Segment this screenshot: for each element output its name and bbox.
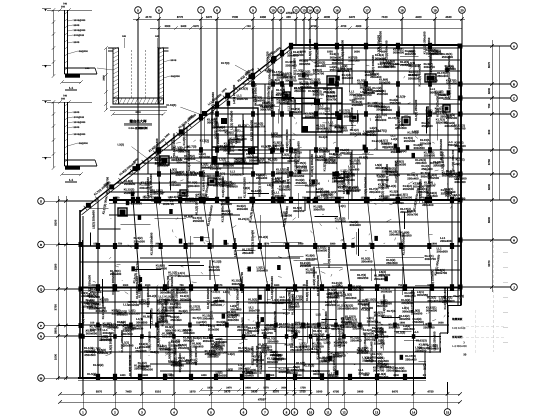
svg-text:200x500: 200x500 — [279, 370, 291, 374]
svg-text:250x600: 250x600 — [193, 219, 205, 223]
svg-text:250x400: 250x400 — [221, 202, 233, 206]
columns (filled) — [79, 43, 463, 381]
svg-text:300x700: 300x700 — [352, 288, 364, 292]
svg-text:750: 750 — [118, 243, 123, 246]
svg-text:250x500: 250x500 — [142, 367, 154, 371]
building diagonal edge beam (double line) — [80, 45, 291, 212]
svg-text:16: 16 — [335, 8, 339, 12]
svg-text:750: 750 — [196, 322, 201, 325]
svg-text:300x600: 300x600 — [350, 162, 362, 166]
svg-text:250x600: 250x600 — [316, 249, 328, 253]
svg-text:300x600: 300x600 — [325, 112, 337, 116]
left vertical dimension lines — [57, 196, 59, 380]
svg-text:19: 19 — [433, 8, 437, 12]
svg-text:200x500: 200x500 — [97, 351, 109, 355]
svg-text:KL3(1) 200x500: KL3(1) 200x500 — [397, 106, 401, 127]
svg-text:250x600: 250x600 — [375, 118, 387, 122]
svg-text:750: 750 — [398, 284, 403, 287]
svg-text:200x500: 200x500 — [297, 169, 309, 173]
svg-text:200x400: 200x400 — [427, 299, 439, 303]
svg-text:250x500: 250x500 — [122, 344, 134, 348]
svg-text:300x600: 300x600 — [426, 309, 438, 313]
svg-text:4750: 4750 — [333, 390, 340, 394]
svg-text:300x700: 300x700 — [454, 127, 466, 131]
svg-text:KL2(3): KL2(3) — [319, 135, 328, 139]
svg-text:200x500: 200x500 — [316, 127, 328, 131]
svg-text:KL15(1): KL15(1) — [87, 294, 98, 298]
svg-text:3470: 3470 — [206, 15, 213, 19]
svg-text:KL17(2): KL17(2) — [407, 131, 418, 135]
svg-text:300x550: 300x550 — [298, 77, 310, 81]
svg-text:17: 17 — [365, 8, 369, 12]
svg-text:2250: 2250 — [300, 51, 306, 54]
svg-text:300x550: 300x550 — [454, 180, 466, 184]
interior sub-dimension row below top edge — [300, 51, 441, 54]
svg-text:200x400: 200x400 — [258, 346, 270, 350]
svg-text:300x600: 300x600 — [188, 184, 200, 188]
svg-text:210: 210 — [369, 243, 374, 246]
svg-text:4750: 4750 — [427, 390, 434, 394]
svg-text:KL2(3): KL2(3) — [148, 294, 157, 298]
svg-text:300x550: 300x550 — [268, 147, 280, 151]
svg-text:2000: 2000 — [328, 374, 334, 377]
svg-text:250x500: 250x500 — [390, 101, 402, 105]
svg-text:750: 750 — [240, 374, 245, 377]
svg-text:300x550: 300x550 — [357, 276, 369, 280]
svg-text:9370: 9370 — [96, 390, 103, 394]
svg-text:1800: 1800 — [274, 284, 280, 287]
svg-text:15: 15 — [315, 8, 319, 12]
svg-text:L1(1): L1(1) — [219, 158, 226, 162]
svg-text:Φ12@150: Φ12@150 — [74, 34, 85, 37]
svg-text:14: 14 — [308, 8, 312, 12]
svg-text:250x400: 250x400 — [332, 180, 344, 184]
svg-text:200x400: 200x400 — [449, 175, 461, 179]
svg-text:KL9(2) 300x550: KL9(2) 300x550 — [120, 331, 124, 352]
svg-text:300x700: 300x700 — [424, 65, 436, 69]
svg-text:300x600: 300x600 — [287, 289, 299, 293]
svg-text:250x600: 250x600 — [427, 79, 439, 83]
bottom mini dims second row — [199, 386, 312, 392]
svg-text:2000: 2000 — [339, 197, 345, 200]
svg-text:300x600: 300x600 — [227, 185, 239, 189]
svg-text:L5(2): L5(2) — [400, 149, 407, 153]
svg-text:L1(1) 250x400: L1(1) 250x400 — [293, 58, 297, 77]
svg-text:10: 10 — [309, 410, 313, 414]
svg-text:250x400: 250x400 — [189, 308, 201, 312]
right axis ticks and rotated numbers — [487, 44, 494, 289]
svg-text:200x500: 200x500 — [208, 327, 220, 331]
svg-text:L3(1): L3(1) — [350, 98, 357, 102]
notes text block bottom right (faint) — [452, 295, 467, 348]
svg-text:250x600: 250x600 — [155, 161, 167, 165]
svg-text:250x600: 250x600 — [131, 202, 143, 206]
svg-text:KL2(3) 250x500: KL2(3) 250x500 — [439, 139, 443, 160]
svg-text:L2(2): L2(2) — [118, 144, 125, 147]
svg-text:KL5(2): KL5(2) — [193, 336, 202, 340]
svg-text:KL3(1) 250x400: KL3(1) 250x400 — [221, 176, 225, 197]
svg-text:KL5(2): KL5(2) — [456, 158, 465, 162]
svg-text:200x400: 200x400 — [409, 73, 421, 77]
svg-text:300x550: 300x550 — [403, 327, 415, 331]
svg-text:1800: 1800 — [239, 284, 245, 287]
svg-text:12: 12 — [294, 8, 298, 12]
svg-text:300x600: 300x600 — [363, 331, 375, 335]
svg-text:250x600: 250x600 — [207, 355, 219, 359]
svg-text:200x500: 200x500 — [238, 349, 250, 353]
fan zone slanted joists — [98, 198, 452, 288]
svg-text:200x500: 200x500 — [415, 161, 427, 165]
main transverse beam y=200 (double) — [109, 199, 461, 201]
svg-text:L1(1): L1(1) — [339, 204, 346, 208]
svg-text:KL7(3) 300x550: KL7(3) 300x550 — [327, 247, 331, 268]
svg-text:KL12(2) 300x550: KL12(2) 300x550 — [101, 296, 105, 319]
svg-text:250x600: 250x600 — [346, 307, 358, 311]
svg-text:250x500: 250x500 — [84, 353, 96, 357]
svg-text:2400: 2400 — [201, 374, 207, 377]
svg-text:250x500: 250x500 — [448, 143, 460, 147]
svg-text:1570: 1570 — [419, 197, 425, 200]
small dark blocks scattered — [118, 74, 450, 216]
svg-text:1800: 1800 — [255, 322, 261, 325]
svg-text:300x600: 300x600 — [380, 61, 392, 65]
svg-text:200x500: 200x500 — [379, 273, 391, 277]
building right edge beam — [460, 45, 462, 306]
svg-text:3750: 3750 — [54, 304, 58, 311]
building bottom edge beam (double) — [78, 377, 448, 379]
svg-text:250x600: 250x600 — [441, 191, 453, 195]
svg-text:250x400: 250x400 — [442, 55, 454, 59]
white-out of notched bottom-right corner — [426, 306, 464, 382]
svg-text:KL21(3): KL21(3) — [372, 139, 383, 143]
svg-text:8Φ25: 8Φ25 — [74, 41, 80, 44]
svg-text:200x400: 200x400 — [440, 239, 452, 243]
svg-text:L-3 250x400: L-3 250x400 — [452, 345, 467, 348]
svg-text:7000: 7000 — [232, 15, 239, 19]
svg-text:3200: 3200 — [487, 87, 491, 94]
svg-text:13: 13 — [302, 8, 306, 12]
svg-text:1570: 1570 — [93, 243, 99, 246]
svg-text:210: 210 — [303, 284, 308, 287]
svg-text:2000: 2000 — [272, 197, 278, 200]
svg-text:250x500: 250x500 — [246, 371, 258, 375]
svg-text:9100: 9100 — [54, 219, 58, 226]
svg-text:250x400: 250x400 — [350, 339, 362, 343]
svg-text:2400: 2400 — [120, 374, 126, 377]
svg-text:250x600: 250x600 — [248, 300, 260, 304]
svg-text:210: 210 — [384, 197, 389, 200]
interior vertical beams upper zone — [138, 45, 448, 200]
svg-text:200x500: 200x500 — [335, 354, 347, 358]
svg-text:300x550: 300x550 — [216, 373, 228, 377]
svg-text:200x500: 200x500 — [437, 250, 449, 254]
wall section detail 1 — [42, 3, 97, 91]
svg-text:4400: 4400 — [415, 15, 422, 19]
svg-text:250x600: 250x600 — [300, 264, 312, 268]
svg-text:3750: 3750 — [487, 158, 491, 165]
svg-text:200x400: 200x400 — [422, 203, 434, 207]
svg-text:250x600: 250x600 — [267, 340, 279, 344]
svg-text:LL1: LL1 — [112, 325, 118, 329]
svg-text:200x400: 200x400 — [389, 233, 401, 237]
svg-text:LL1: LL1 — [316, 313, 322, 317]
lower zone vertical beams — [83, 288, 448, 379]
svg-text:11: 11 — [279, 8, 283, 12]
svg-text:250x500: 250x500 — [293, 368, 305, 372]
svg-text:300x600: 300x600 — [330, 55, 342, 59]
svg-text:200x400: 200x400 — [276, 100, 288, 104]
svg-text:300x550: 300x550 — [299, 62, 311, 66]
svg-text:200x400: 200x400 — [369, 190, 381, 194]
svg-text:15: 15 — [446, 410, 450, 414]
svg-text:2400: 2400 — [143, 374, 149, 377]
svg-text:300x550: 300x550 — [375, 56, 387, 60]
svg-text:300x700: 300x700 — [326, 98, 338, 102]
svg-text:KL21(3): KL21(3) — [345, 315, 356, 319]
svg-text:2000: 2000 — [269, 374, 275, 377]
svg-text:300x550: 300x550 — [345, 296, 357, 300]
top dimension sub line — [150, 27, 462, 29]
svg-text:300x600: 300x600 — [117, 313, 129, 317]
svg-text:200x400: 200x400 — [170, 183, 182, 187]
svg-text:300x700: 300x700 — [313, 372, 325, 376]
svg-text:250x400: 250x400 — [352, 103, 364, 107]
svg-text:KL8(4) 200x400: KL8(4) 200x400 — [202, 170, 206, 191]
svg-text:1:20 h=100: 1:20 h=100 — [452, 327, 466, 330]
svg-text:300x600: 300x600 — [454, 196, 466, 200]
svg-text:KL5(2): KL5(2) — [211, 290, 220, 294]
svg-text:300x600: 300x600 — [86, 332, 98, 336]
diagonal edge annotations — [93, 46, 282, 197]
svg-text:1800: 1800 — [321, 322, 327, 325]
svg-text:L3(1): L3(1) — [321, 359, 328, 363]
svg-text:250x400: 250x400 — [362, 359, 374, 363]
svg-text:KL2(3): KL2(3) — [239, 87, 248, 91]
svg-text:1-1: 1-1 — [69, 178, 74, 182]
svg-text:4700: 4700 — [341, 25, 347, 28]
svg-text:250x600: 250x600 — [209, 268, 221, 272]
svg-text:200x500: 200x500 — [128, 303, 140, 307]
svg-text:300x700: 300x700 — [176, 160, 188, 164]
svg-text:2000: 2000 — [165, 25, 171, 28]
svg-text:L5(2): L5(2) — [226, 368, 233, 372]
svg-text:KL12(2): KL12(2) — [148, 335, 159, 339]
svg-text:250x600: 250x600 — [210, 167, 222, 171]
svg-text:8Φ25: 8Φ25 — [74, 24, 80, 27]
svg-text:750: 750 — [142, 197, 147, 200]
top overall dimension line — [133, 18, 465, 20]
interior horizontal beams upper zone — [109, 60, 461, 192]
svg-text:200x400: 200x400 — [170, 170, 182, 174]
svg-text:200x500: 200x500 — [325, 303, 337, 307]
svg-text:250x500: 250x500 — [310, 350, 322, 354]
svg-text:300x550: 300x550 — [287, 159, 299, 163]
svg-text:250x600: 250x600 — [151, 198, 163, 202]
svg-text:2460: 2460 — [260, 15, 267, 19]
svg-text:KL5(2) 250x400: KL5(2) 250x400 — [308, 39, 312, 60]
svg-text:L5(2) 250x500: L5(2) 250x500 — [178, 353, 182, 372]
svg-text:KL7(3): KL7(3) — [229, 287, 238, 291]
svg-text:300x700: 300x700 — [262, 331, 274, 335]
svg-text:250x500: 250x500 — [377, 92, 389, 96]
left axis ticks and rotated numbers — [54, 199, 68, 380]
svg-text:1000: 1000 — [54, 353, 58, 360]
svg-text:3400: 3400 — [181, 25, 187, 28]
svg-text:2000: 2000 — [145, 284, 151, 287]
svg-text:18: 18 — [400, 8, 404, 12]
svg-text:300x550: 300x550 — [389, 325, 401, 329]
svg-text:250x600: 250x600 — [437, 74, 449, 78]
svg-text:200x400: 200x400 — [357, 351, 369, 355]
svg-text:3000: 3000 — [381, 51, 387, 54]
svg-text:6470: 6470 — [392, 390, 399, 394]
svg-text:200x400: 200x400 — [390, 193, 402, 197]
svg-text:1570: 1570 — [94, 374, 100, 377]
svg-text:霜台坐大样: 霜台坐大样 — [129, 120, 148, 124]
svg-text:400: 400 — [286, 15, 291, 19]
svg-text:KL7(3) 300x550: KL7(3) 300x550 — [186, 172, 190, 193]
svg-text:KL7(3): KL7(3) — [294, 86, 303, 90]
svg-text:300x700: 300x700 — [165, 328, 177, 332]
svg-text:300x700: 300x700 — [313, 208, 325, 212]
svg-text:6110: 6110 — [155, 390, 162, 394]
top axis bubbles — [135, 7, 466, 19]
svg-text:8770: 8770 — [177, 15, 184, 19]
svg-text:KL15(1): KL15(1) — [166, 104, 176, 107]
svg-text:L3(1) 300x600: L3(1) 300x600 — [230, 110, 234, 129]
svg-text:KL1(2): KL1(2) — [431, 161, 440, 165]
svg-text:2000: 2000 — [155, 243, 161, 246]
svg-text:1570: 1570 — [397, 243, 403, 246]
svg-text:200x400: 200x400 — [362, 306, 374, 310]
svg-text:LL1 250x500: LL1 250x500 — [149, 308, 153, 326]
leader labels above diagonal — [118, 62, 254, 159]
svg-text:KL9(2) 200x400: KL9(2) 200x400 — [109, 333, 113, 354]
right axis bubbles — [461, 43, 517, 291]
svg-text:1570: 1570 — [263, 386, 269, 389]
stair core cluster 1 — [302, 88, 342, 132]
top grid leader lines into plan — [138, 19, 462, 166]
svg-text:KL17(2) 300x700: KL17(2) 300x700 — [270, 90, 274, 113]
svg-text:250x400: 250x400 — [245, 334, 257, 338]
svg-text:250x500: 250x500 — [376, 304, 388, 308]
svg-text:200x400: 200x400 — [257, 269, 269, 273]
bottom dimension segments line — [60, 393, 460, 395]
svg-text:1570: 1570 — [427, 284, 433, 287]
svg-text:13: 13 — [375, 410, 379, 414]
svg-text:200x400: 200x400 — [380, 365, 392, 369]
svg-text:LL1: LL1 — [185, 145, 191, 149]
svg-text:2400: 2400 — [393, 374, 399, 377]
svg-text:210: 210 — [344, 322, 349, 325]
svg-text:L5(2) 250x600: L5(2) 250x600 — [432, 331, 436, 350]
svg-text:200x500: 200x500 — [344, 173, 356, 177]
svg-text:200x500: 200x500 — [424, 184, 436, 188]
svg-text:250x600: 250x600 — [365, 73, 377, 77]
svg-text:L1(1) 200x400: L1(1) 200x400 — [233, 238, 237, 257]
svg-text:200x500: 200x500 — [287, 53, 299, 57]
svg-text:250x600: 250x600 — [327, 291, 339, 295]
svg-text:250x500: 250x500 — [279, 325, 291, 329]
diagonal tick marks and dims — [84, 50, 285, 210]
partial interior beams fan zone — [80, 215, 461, 270]
svg-text:300x700: 300x700 — [237, 97, 249, 101]
svg-text:KL9(2): KL9(2) — [177, 288, 186, 292]
svg-text:200x500: 200x500 — [295, 326, 307, 330]
svg-text:L5(2) 250x600: L5(2) 250x600 — [91, 210, 95, 229]
svg-text:200x400: 200x400 — [445, 67, 457, 71]
svg-text:300x700: 300x700 — [425, 257, 437, 261]
svg-text:LL1 250x600: LL1 250x600 — [99, 324, 103, 342]
svg-text:KL21(3) 200x500: KL21(3) 200x500 — [138, 275, 142, 298]
svg-text:200x400: 200x400 — [381, 108, 393, 112]
svg-text:200x400: 200x400 — [364, 91, 376, 95]
bottom axis bubbles — [80, 378, 451, 415]
svg-text:250x400: 250x400 — [291, 110, 303, 114]
svg-text:LL1: LL1 — [391, 133, 397, 137]
svg-text:L3(1): L3(1) — [234, 129, 241, 133]
svg-text:KL2(3): KL2(3) — [238, 124, 247, 128]
svg-text:200x400: 200x400 — [237, 207, 249, 211]
svg-text:2000: 2000 — [375, 322, 381, 325]
svg-text:2400: 2400 — [103, 75, 106, 81]
svg-text:250x400: 250x400 — [242, 251, 254, 255]
svg-text:3000: 3000 — [354, 51, 360, 54]
svg-text:300x600: 300x600 — [223, 149, 235, 153]
svg-text:KL7(3): KL7(3) — [299, 81, 308, 85]
svg-text:300x550: 300x550 — [402, 309, 414, 313]
svg-text:L2(2): L2(2) — [228, 352, 235, 356]
svg-text:2500: 2500 — [135, 111, 141, 114]
svg-text:H: H — [513, 238, 515, 242]
svg-text:250x600: 250x600 — [275, 357, 287, 361]
svg-text:KL12(2): KL12(2) — [93, 363, 104, 367]
svg-text:P: P — [40, 324, 42, 328]
svg-text:250x400: 250x400 — [329, 155, 341, 159]
svg-text:200: 200 — [61, 6, 66, 9]
svg-text:300x550: 300x550 — [281, 75, 293, 79]
svg-text:2470: 2470 — [226, 386, 232, 389]
svg-text:300x600: 300x600 — [178, 274, 190, 278]
svg-text:750: 750 — [487, 103, 491, 108]
svg-text:200x500: 200x500 — [403, 187, 415, 191]
svg-text:KL3(1) 250x600: KL3(1) 250x600 — [341, 40, 345, 61]
svg-text:Φ8@150: Φ8@150 — [171, 75, 181, 78]
svg-text:300x600: 300x600 — [301, 73, 313, 77]
svg-text:KL2(3) 300x700: KL2(3) 300x700 — [451, 149, 455, 170]
svg-text:L3(1) 300x550: L3(1) 300x550 — [377, 35, 381, 54]
svg-text:300x700: 300x700 — [336, 341, 348, 345]
svg-text:2400: 2400 — [298, 243, 304, 246]
svg-text:S: S — [40, 199, 42, 203]
svg-text:200x500: 200x500 — [428, 176, 440, 180]
svg-text:5160: 5160 — [54, 263, 58, 270]
svg-text:750: 750 — [224, 322, 229, 325]
svg-text:300x700: 300x700 — [163, 202, 175, 206]
svg-text:KL12(2): KL12(2) — [251, 189, 262, 193]
svg-text:300x600: 300x600 — [234, 159, 246, 163]
svg-text:300x550: 300x550 — [414, 146, 426, 150]
svg-text:210: 210 — [90, 322, 95, 325]
svg-text:8Φ25: 8Φ25 — [74, 126, 80, 129]
svg-text:300x700: 300x700 — [249, 308, 261, 312]
svg-text:750: 750 — [302, 197, 307, 200]
svg-text:200x400: 200x400 — [110, 272, 122, 276]
fan zone left verticals — [82, 216, 84, 288]
svg-text:3470: 3470 — [349, 15, 356, 19]
svg-text:300x550: 300x550 — [228, 318, 240, 322]
svg-text:KL7(3): KL7(3) — [200, 139, 209, 143]
